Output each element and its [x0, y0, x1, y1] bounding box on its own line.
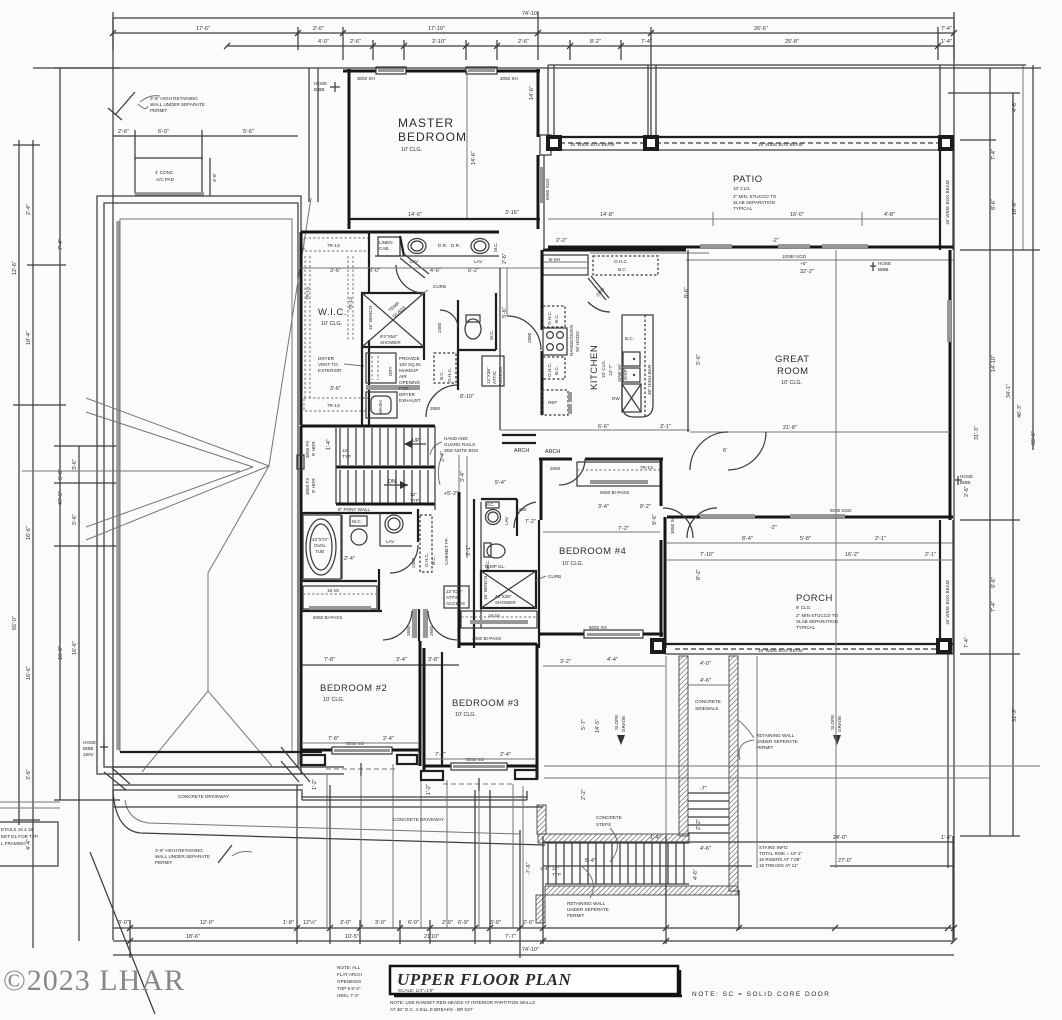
svg-text:B-SH: B-SH [549, 257, 560, 262]
svg-text:7R-1S: 7R-1S [640, 465, 653, 470]
vertical extension lines [756, 656, 758, 868]
laundry: counter gray [366, 385, 420, 390]
svg-text:16'-0": 16'-0" [790, 212, 804, 218]
svg-text:2680: 2680 [429, 625, 434, 636]
svg-text:6080 BI-PASS: 6080 BI-PASS [600, 490, 629, 495]
svg-text:O.H.C.: O.H.C. [547, 363, 552, 377]
svg-text:LAV: LAV [386, 539, 395, 544]
svg-text:-2": -2" [772, 238, 779, 244]
stairwell top wall [301, 425, 435, 428]
svg-text:9'-6": 9'-6" [991, 577, 997, 588]
svg-text:5'-6": 5'-6" [243, 129, 254, 135]
svg-text:8'4"X54": 8'4"X54" [380, 334, 398, 339]
garage sw corner slashes [104, 772, 126, 790]
interior break line [466, 71, 468, 219]
svg-text:TUB: TUB [315, 549, 324, 554]
ohc bc cabinet [420, 515, 432, 572]
west wall [664, 517, 667, 648]
retaining note lower left [218, 845, 232, 863]
svg-text:2'-6": 2'-6" [350, 39, 361, 45]
svg-text:14'-6": 14'-6" [529, 86, 535, 100]
kitchen west wall [541, 250, 544, 330]
top dim ticks [112, 12, 114, 50]
svg-text:16' WIDE BOX BEAM: 16' WIDE BOX BEAM [945, 180, 950, 225]
top dimension line row 3 [227, 45, 954, 47]
door jamb box east [540, 135, 551, 155]
svg-text:SINK W/: SINK W/ [617, 364, 622, 382]
svg-text:9' HDR: 9' HDR [311, 441, 316, 456]
svg-text:5'-4": 5'-4" [585, 858, 596, 864]
svg-text:3050 FX: 3050 FX [305, 478, 310, 495]
svg-text:3'-6" HIGH RETAINING: 3'-6" HIGH RETAINING [150, 96, 198, 101]
garage west wall gray [116, 221, 120, 750]
sidewalk steps [688, 792, 729, 794]
svg-text:10'-5": 10'-5" [345, 934, 359, 940]
retaining wall note (top left) [115, 92, 135, 115]
svg-text:5'-8": 5'-8" [800, 536, 811, 542]
svg-text:4'-0": 4'-0" [318, 39, 329, 45]
svg-text:M.C.: M.C. [493, 242, 498, 252]
svg-text:2880: 2880 [527, 332, 532, 343]
stairs top hatch band [538, 834, 689, 843]
svg-text:8'-2": 8'-2" [590, 39, 601, 45]
svg-text:UP: UP [412, 438, 420, 444]
driveway apron line [302, 796, 527, 798]
svg-text:9' CLG.: 9' CLG. [796, 605, 811, 610]
east wall [939, 520, 941, 638]
bed4 east wall [660, 459, 663, 506]
svg-text:CONCRETE DRIVEWAY: CONCRETE DRIVEWAY [178, 794, 229, 799]
svg-text:10' CLG.: 10' CLG. [455, 712, 476, 718]
svg-text:12": 12" [342, 448, 349, 453]
svg-text:2'-6": 2'-6" [964, 486, 970, 497]
svg-text:3'-1": 3'-1" [660, 424, 671, 430]
svg-text:5'-6": 5'-6" [696, 354, 702, 365]
bed2 walls [300, 611, 303, 765]
svg-text:8'-2": 8'-2" [640, 504, 651, 510]
hall walls near kitchen [499, 268, 501, 430]
beam south edge [665, 643, 953, 645]
svg-text:16'-6": 16'-6" [26, 666, 32, 680]
svg-text:7R-1S: 7R-1S [305, 287, 310, 300]
svg-text:3'-6": 3'-6" [212, 172, 217, 182]
hall bath: oval tub [303, 515, 341, 579]
bed3 south wall + window [424, 765, 451, 768]
svg-text:W.C.: W.C. [489, 330, 494, 340]
dn arrow [384, 484, 408, 486]
svg-text:D.R.: D.R. [438, 243, 447, 248]
svg-text:9'-6": 9'-6" [652, 514, 658, 525]
left hatch small [537, 805, 546, 834]
svg-text:10' CLG.: 10' CLG. [601, 360, 606, 378]
svg-text:4'-0": 4'-0" [700, 661, 711, 667]
up arrow [404, 443, 426, 445]
svg-text:UPPER FLOOR PLAN: UPPER FLOOR PLAN [397, 970, 571, 989]
svg-text:16'-6": 16'-6" [1012, 201, 1018, 215]
svg-text:-7": -7" [700, 786, 707, 792]
svg-text:3'-0": 3'-0" [340, 920, 351, 926]
svg-text:47'-6": 47'-6" [58, 491, 64, 505]
shower door arc [396, 265, 424, 293]
svg-text:4060 BI-PASS: 4060 BI-PASS [472, 636, 501, 641]
svg-text:TYP: TYP [552, 872, 561, 877]
long reference line y=68 [33, 67, 1041, 69]
svg-text:7R-1S: 7R-1S [327, 403, 340, 408]
west boundary line [687, 250, 689, 432]
svg-text:GREAT: GREAT [775, 354, 810, 365]
roof ridge [207, 573, 209, 691]
svg-text:CURB: CURB [548, 574, 561, 579]
svg-text:1'-8": 1'-8" [283, 920, 294, 926]
svg-text:CAB.: CAB. [379, 246, 390, 251]
svg-text:46'-3": 46'-3" [1017, 404, 1023, 418]
svg-text:OPENINGS: OPENINGS [337, 979, 361, 984]
svg-text:1'-4": 1'-4" [941, 835, 952, 841]
bed2 north wall [300, 610, 382, 612]
svg-text:DISP: DISP [623, 369, 628, 380]
svg-text:4'-8": 4'-8" [884, 212, 895, 218]
svg-text:1'-4": 1'-4" [540, 866, 550, 871]
svg-text:21'-8": 21'-8" [783, 425, 797, 431]
svg-text:2480: 2480 [411, 557, 416, 568]
svg-text:3'-2": 3'-2" [560, 659, 571, 665]
svg-text:27'-0": 27'-0" [838, 858, 852, 864]
svg-text:BIBB: BIBB [314, 87, 324, 92]
bed4 north wall + arch [539, 458, 572, 461]
svg-text:ACCESS: ACCESS [446, 601, 465, 606]
bath north wall (master south) [301, 231, 499, 234]
svg-text:AIR: AIR [399, 374, 407, 379]
concrete sidewalk hatched walls [679, 656, 688, 836]
svg-text:MASTER: MASTER [398, 116, 454, 130]
svg-text:2'-2": 2'-2" [556, 238, 567, 244]
svg-text:9' HDR: 9' HDR [311, 478, 316, 493]
svg-text:16" BENCH: 16" BENCH [483, 576, 488, 600]
svg-text:©2023 LHAR: ©2023 LHAR [3, 964, 185, 997]
svg-text:42"X72": 42"X72" [312, 537, 329, 542]
roof tip-to-ridge diagonal [208, 466, 269, 573]
svg-text:FOR: FOR [399, 386, 409, 391]
svg-text:B.C.: B.C. [618, 267, 627, 272]
fridge [542, 390, 568, 415]
svg-text:7'-4": 7'-4" [964, 637, 970, 648]
svg-text:13'-7": 13'-7" [608, 364, 613, 376]
svg-text:UNDER SEPERATE: UNDER SEPERATE [756, 739, 798, 744]
svg-text:-2": -2" [770, 525, 777, 531]
laundry: washer [366, 392, 397, 418]
svg-text:HEEL 7'-4": HEEL 7'-4" [337, 993, 360, 998]
svg-text:TEMP GL.: TEMP GL. [484, 564, 505, 569]
east wall hose bibb [955, 479, 962, 481]
hall bath west wall lower [300, 513, 303, 648]
svg-text:10' CLG.: 10' CLG. [321, 321, 342, 327]
svg-text:W/ HOOD: W/ HOOD [575, 331, 580, 352]
svg-text:7'-4": 7'-4" [58, 239, 64, 250]
svg-text:7R-1S: 7R-1S [348, 297, 353, 310]
svg-text:PERMIT: PERMIT [756, 745, 774, 750]
svg-text:2680: 2680 [406, 625, 411, 636]
svg-text:1'-4": 1'-4" [941, 39, 952, 45]
svg-text:SCALE: 1/4"=1'0": SCALE: 1/4"=1'0" [398, 988, 434, 993]
mid landing rail [336, 466, 435, 469]
svg-text:16' WIDE BOX BEAM: 16' WIDE BOX BEAM [945, 580, 950, 625]
counters left [543, 306, 565, 327]
top dimension line row 2 [113, 32, 954, 34]
svg-text:4'-6": 4'-6" [700, 846, 711, 852]
svg-text:6'-6": 6'-6" [598, 424, 609, 430]
svg-text:O.H.C.: O.H.C. [614, 259, 628, 264]
svg-text:7'-4": 7'-4" [991, 149, 997, 160]
svg-text:2'-4": 2'-4" [500, 752, 511, 758]
details box left edge [0, 822, 58, 866]
svg-text:SLAB SEPARATION: SLAB SEPARATION [733, 200, 775, 205]
hall bath wc [350, 516, 367, 526]
bottom right dim rows [543, 841, 953, 843]
arch to great room [502, 434, 536, 436]
apron end hooks [301, 791, 303, 800]
interior dim [690, 431, 950, 433]
hall door [426, 385, 458, 417]
extra left dim line x=79 [78, 446, 80, 941]
svg-text:32'-2": 32'-2" [800, 269, 814, 275]
svg-text:12": 12" [552, 866, 559, 871]
svg-text:SLOPE: SLOPE [614, 715, 619, 730]
svg-text:4'-4": 4'-4" [607, 657, 618, 663]
svg-text:2'-1": 2'-1" [925, 552, 936, 558]
svg-text:DW: DW [612, 396, 620, 401]
svg-text:EET D1 FOR TYP.: EET D1 FOR TYP. [1, 834, 39, 839]
garage mid reference line [22, 470, 240, 472]
svg-text:PATIO: PATIO [733, 174, 763, 185]
svg-text:BEDROOM #4: BEDROOM #4 [559, 546, 626, 557]
svg-text:6080 SGD: 6080 SGD [545, 178, 550, 200]
svg-text:GUARD RAILS: GUARD RAILS [444, 442, 475, 447]
svg-text:16-15: 16-15 [327, 588, 339, 593]
svg-text:3'-4": 3'-4" [598, 504, 609, 510]
range / oven [543, 328, 567, 355]
svg-text:7'-7": 7'-7" [435, 752, 446, 758]
svg-text:HOSE: HOSE [314, 81, 327, 86]
svg-text:2'-4": 2'-4" [26, 204, 32, 215]
svg-text:DRY: DRY [388, 366, 393, 376]
svg-text:6'-0": 6'-0" [158, 129, 169, 135]
svg-text:M.C.: M.C. [485, 502, 495, 507]
svg-text:L FRAMING: L FRAMING [1, 841, 26, 846]
svg-text:17'-10": 17'-10" [428, 26, 445, 32]
svg-text:HOSE: HOSE [878, 261, 891, 266]
svg-text:PROVIDE: PROVIDE [399, 356, 420, 361]
svg-text:O.H.C.: O.H.C. [447, 368, 452, 382]
svg-text:6050 XO: 6050 XO [589, 625, 608, 630]
svg-text:O.H.C.: O.H.C. [547, 311, 552, 325]
wic shelf bands [304, 256, 306, 398]
svg-text:2'-6": 2'-6" [313, 26, 324, 32]
svg-text:14'-5": 14'-5" [595, 719, 601, 733]
A/C pad [135, 158, 202, 193]
svg-text:ROOM: ROOM [777, 366, 809, 377]
diagonal to lower corner [90, 852, 155, 1014]
svg-text:2'-6": 2'-6" [502, 253, 508, 264]
svg-text:RANGE/OVEN: RANGE/OVEN [569, 325, 574, 356]
svg-text:16-15: 16-15 [488, 613, 500, 618]
svg-text:17'-6": 17'-6" [196, 26, 210, 32]
svg-text:+5'-2": +5'-2" [444, 491, 458, 497]
svg-text:B.C.: B.C. [431, 556, 436, 565]
svg-text:8'-6": 8'-6" [991, 199, 997, 210]
svg-text:NOTE: USE RAMSET RED-HEADS AT: NOTE: USE RAMSET RED-HEADS AT INTERIOR P… [390, 1000, 535, 1005]
svg-text:2'-4": 2'-4" [383, 736, 394, 742]
svg-text:SEE NOTE BOX: SEE NOTE BOX [444, 448, 478, 453]
svg-text:UNDER SEPERATE: UNDER SEPERATE [567, 907, 609, 912]
svg-text:CURB: CURB [433, 284, 446, 289]
svg-text:TYPICAL: TYPICAL [796, 625, 816, 630]
svg-text:16'-6": 16'-6" [72, 641, 78, 655]
bath3 wc room 1 [481, 498, 517, 500]
bottom ticks [129, 920, 131, 958]
svg-text:65'-6": 65'-6" [1031, 431, 1037, 445]
svg-text:10' CLG.: 10' CLG. [733, 186, 751, 191]
svg-text:NOTE: ALL: NOTE: ALL [337, 965, 361, 970]
svg-text:7'-4": 7'-4" [641, 39, 652, 45]
svg-text:MAKEUP: MAKEUP [399, 368, 418, 373]
svg-text:B.C.: B.C. [554, 366, 559, 375]
svg-text:3'-6": 3'-6" [330, 268, 341, 274]
svg-text:BIBB: BIBB [960, 480, 970, 485]
svg-text:+0": +0" [800, 261, 807, 266]
treads lower flight [339, 470, 341, 503]
svg-text:3050 SH: 3050 SH [357, 76, 375, 81]
svg-text:4'-6": 4'-6" [700, 678, 711, 684]
svg-text:2'-1": 2'-1" [875, 536, 886, 542]
left dimension verticals [18, 140, 20, 825]
svg-text:BEDROOM #3: BEDROOM #3 [452, 698, 519, 709]
svg-text:WASH: WASH [378, 400, 383, 414]
svg-text:8'-10": 8'-10" [460, 394, 474, 400]
svg-text:10' CLG.: 10' CLG. [562, 561, 583, 567]
svg-text:3050 SH: 3050 SH [500, 76, 518, 81]
svg-text:6080 SGD: 6080 SGD [830, 508, 852, 513]
svg-text:74'-10": 74'-10" [522, 947, 539, 953]
east wall [949, 250, 952, 520]
hall bath lav [385, 515, 403, 533]
hand rail note pointer [438, 455, 442, 485]
svg-text:3'-0": 3'-0" [375, 920, 386, 926]
svg-text:OPENING: OPENING [399, 380, 421, 385]
roof hip triangle [142, 691, 272, 772]
svg-text:16' WIDE BOX BEAM: 16' WIDE BOX BEAM [570, 142, 615, 147]
kitchen wall inner lip [590, 252, 709, 254]
hall linen closet 16-15 [303, 586, 377, 609]
svg-text:6'-9": 6'-9" [458, 920, 469, 926]
bottom dimension rows [113, 927, 954, 929]
svg-text:16" BENCH: 16" BENCH [368, 306, 373, 330]
svg-text:65'-0": 65'-0" [12, 616, 18, 630]
tub room south wall [300, 580, 377, 582]
svg-text:BEDROOM #2: BEDROOM #2 [320, 683, 387, 694]
bed4 west wall [540, 459, 543, 520]
svg-text:STEPS: STEPS [596, 822, 611, 827]
svg-text:W.I.C.: W.I.C. [318, 307, 347, 318]
svg-text:18'-4": 18'-4" [26, 331, 32, 345]
svg-text:25'-8": 25'-8" [785, 39, 799, 45]
svg-text:KITCHEN: KITCHEN [589, 345, 600, 390]
kitchen interior dim lines [500, 429, 690, 431]
bottom rail [336, 503, 435, 506]
svg-text:14'-6": 14'-6" [408, 212, 422, 218]
roof chevron [86, 398, 269, 466]
shower [362, 293, 424, 347]
dim slash ticks [127, 925, 133, 931]
stair treads [547, 843, 549, 884]
svg-text:DRYER: DRYER [318, 356, 335, 361]
svg-text:SLOPE: SLOPE [830, 715, 835, 730]
bath3 toilet room [487, 544, 505, 558]
bath2 east wall [417, 509, 419, 542]
svg-text:31'-3": 31'-3" [974, 426, 980, 440]
svg-text:18'-6": 18'-6" [186, 934, 200, 940]
bed3 walls [423, 648, 426, 771]
svg-text:EXHAUST: EXHAUST [399, 398, 421, 403]
svg-text:SHOWER: SHOWER [495, 600, 516, 605]
bath3 entry door [514, 502, 536, 528]
svg-text:16'-8": 16'-8" [58, 646, 64, 660]
svg-text:22"X30": 22"X30" [446, 589, 463, 594]
top dimension line row 1 [113, 17, 954, 19]
closet east wall [378, 569, 380, 612]
svg-text:3'-0": 3'-0" [490, 920, 501, 926]
master wc room [457, 300, 459, 350]
columns [650, 638, 666, 654]
svg-text:FLAT ARCH: FLAT ARCH [337, 972, 362, 977]
west wall [348, 69, 351, 229]
svg-text:7'-2": 7'-2" [525, 519, 536, 525]
svg-text:HAND AND: HAND AND [444, 436, 468, 441]
svg-text:12": 12" [410, 492, 417, 497]
svg-text:DN: DN [388, 479, 396, 485]
svg-text:3'-6" HIGH RETAINING: 3'-6" HIGH RETAINING [155, 848, 203, 853]
svg-text:A/C PAD: A/C PAD [156, 177, 175, 182]
driveway south edge [113, 806, 543, 808]
right wall of patio below beam [939, 150, 941, 250]
right edge double [939, 65, 941, 136]
svg-text:NOTE: SC = SOLID CORE DOOR: NOTE: SC = SOLID CORE DOOR [692, 991, 831, 998]
svg-text:16 RISERS AT 7.09": 16 RISERS AT 7.09" [759, 857, 801, 862]
svg-text:7'-4": 7'-4" [991, 601, 997, 612]
svg-text:W.C.: W.C. [352, 519, 362, 524]
svg-text:TYP: TYP [410, 498, 419, 503]
garage outer walls [97, 196, 301, 774]
svg-text:34'-1": 34'-1" [1006, 384, 1012, 398]
tub/wc divider [341, 515, 343, 579]
svg-text:21'10": 21'10" [424, 934, 439, 940]
island [622, 315, 653, 417]
svg-text:5'-6": 5'-6" [72, 514, 78, 525]
svg-text:TYP: TYP [342, 454, 351, 459]
bed3 window jamb boxes [421, 771, 443, 780]
bed2 south wall + window [301, 749, 332, 752]
svg-text:2'-0": 2'-0" [523, 920, 534, 926]
hall door to kitchen [507, 316, 541, 350]
svg-text:CONCRETE DRIVEWAY: CONCRETE DRIVEWAY [393, 817, 444, 822]
svg-text:40"X36": 40"X36" [495, 594, 512, 599]
svg-text:14'-8": 14'-8" [600, 212, 614, 218]
svg-text:PERMIT: PERMIT [155, 860, 173, 865]
svg-text:7'-10": 7'-10" [700, 552, 714, 558]
svg-text:2680: 2680 [550, 466, 561, 471]
svg-text:BIBB: BIBB [878, 267, 888, 272]
svg-text:TYPICAL: TYPICAL [733, 206, 753, 211]
right dimension verticals [989, 68, 991, 836]
